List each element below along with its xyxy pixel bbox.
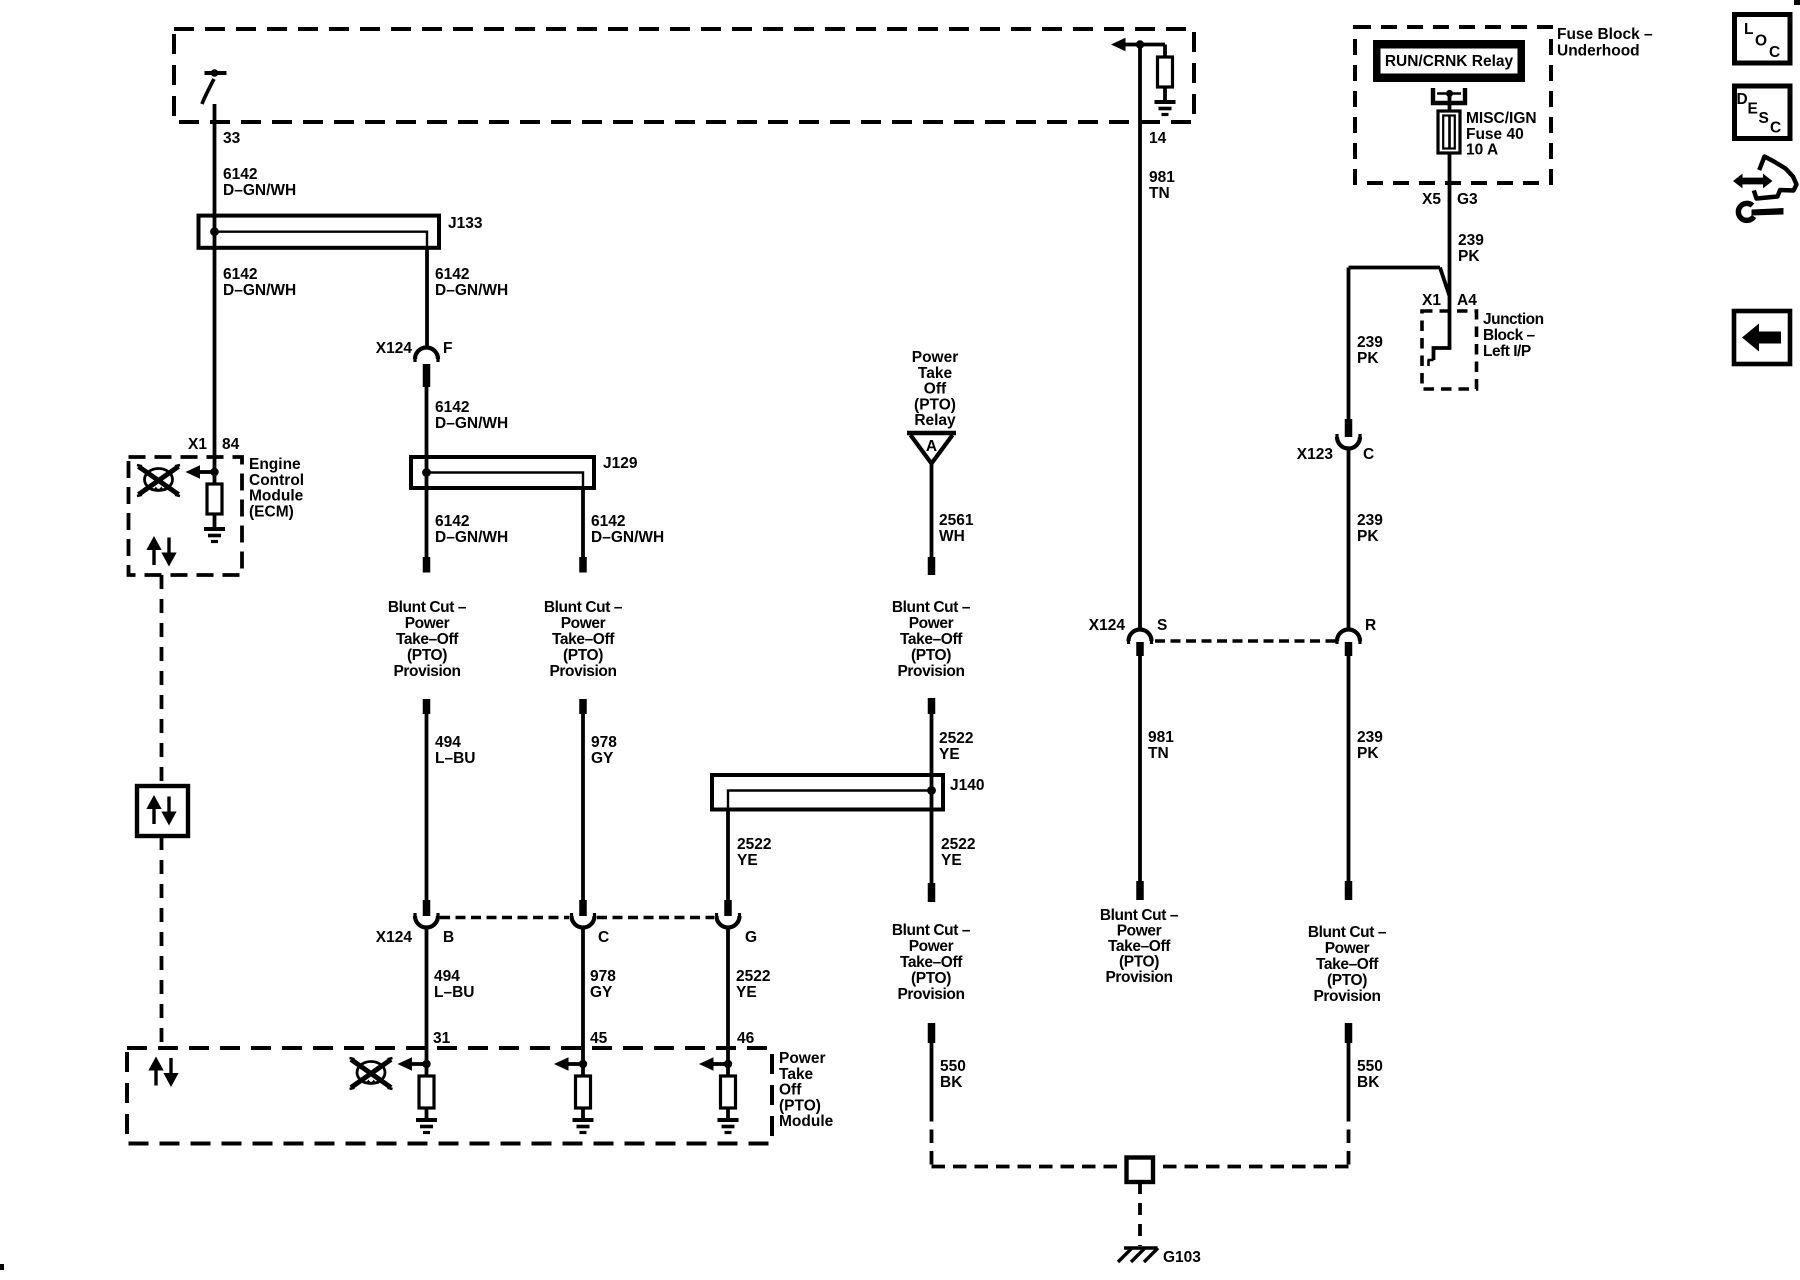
svg-text:PK: PK bbox=[1357, 745, 1379, 762]
svg-text:(PTO): (PTO) bbox=[407, 647, 447, 664]
blunt cut terminal (550 BK right) bbox=[1345, 1023, 1353, 1043]
svg-text:G103: G103 bbox=[1163, 1249, 1201, 1266]
svg-text:Take–Off: Take–Off bbox=[1108, 938, 1171, 955]
svg-text:Off: Off bbox=[779, 1082, 802, 1099]
svg-text:Blunt Cut –: Blunt Cut – bbox=[892, 922, 971, 939]
svg-text:(PTO): (PTO) bbox=[563, 647, 603, 664]
svg-text:494: 494 bbox=[434, 968, 460, 985]
crossed-out actuator symbol (bottom module) bbox=[350, 1058, 393, 1089]
svg-text:RUN/CRNK Relay: RUN/CRNK Relay bbox=[1385, 53, 1514, 70]
wire: 550 BK solid (right) bbox=[1347, 1043, 1351, 1108]
blunt cut terminal (right) bbox=[579, 557, 587, 573]
svg-text:(PTO): (PTO) bbox=[914, 396, 956, 413]
svg-text:S: S bbox=[1157, 617, 1167, 634]
svg-text:978: 978 bbox=[591, 734, 617, 751]
PTO module internal: arrow, resistor, ground at pin 46 bbox=[699, 1057, 739, 1132]
wire: 2522 YE through J140 bbox=[930, 714, 934, 884]
blunt cut terminal (left) bbox=[423, 557, 431, 573]
svg-text:YE: YE bbox=[939, 746, 960, 763]
svg-text:L: L bbox=[1744, 21, 1753, 38]
svg-text:E: E bbox=[1748, 101, 1758, 118]
svg-text:Provision: Provision bbox=[1105, 969, 1172, 986]
svg-text:2561: 2561 bbox=[939, 512, 974, 529]
Junction Block - Left I/P dashed box bbox=[1422, 311, 1477, 389]
svg-text:Power: Power bbox=[909, 938, 954, 955]
svg-text:D–GN/WH: D–GN/WH bbox=[435, 415, 508, 432]
svg-text:GY: GY bbox=[590, 984, 613, 1001]
svg-text:B: B bbox=[443, 929, 454, 946]
svg-text:Engine: Engine bbox=[249, 456, 301, 473]
svg-text:Left I/P: Left I/P bbox=[1483, 343, 1531, 360]
junction block internal link bbox=[1434, 311, 1450, 360]
svg-text:Power: Power bbox=[405, 615, 450, 632]
svg-text:C: C bbox=[1769, 44, 1780, 61]
svg-text:Module: Module bbox=[779, 1113, 834, 1130]
bidirectional arrows (ECM) bbox=[147, 537, 176, 566]
LOC icon box bbox=[1735, 15, 1791, 64]
wire: 2522 YE lower bbox=[726, 927, 730, 1064]
svg-text:A: A bbox=[926, 438, 937, 455]
blunt cut terminal end (239 PK) bbox=[1345, 881, 1353, 900]
wire: 550 BK solid (left) bbox=[930, 1043, 934, 1108]
relay output bracket bbox=[1433, 88, 1465, 111]
connector X124 pin R bbox=[1337, 630, 1360, 657]
svg-text:(PTO): (PTO) bbox=[911, 970, 951, 987]
svg-text:J129: J129 bbox=[603, 455, 638, 472]
svg-text:2522: 2522 bbox=[939, 730, 973, 747]
svg-text:239: 239 bbox=[1357, 512, 1383, 529]
svg-text:6142: 6142 bbox=[435, 399, 469, 416]
svg-text:(PTO): (PTO) bbox=[911, 647, 951, 664]
wire: 978 GY upper bbox=[581, 714, 585, 902]
svg-text:D–GN/WH: D–GN/WH bbox=[435, 282, 508, 299]
svg-text:Power: Power bbox=[912, 349, 959, 366]
svg-text:6142: 6142 bbox=[223, 266, 257, 283]
svg-text:L–BU: L–BU bbox=[435, 750, 475, 767]
svg-text:981: 981 bbox=[1149, 169, 1175, 186]
svg-text:Fuse Block –: Fuse Block – bbox=[1557, 26, 1653, 43]
svg-text:2522: 2522 bbox=[941, 836, 975, 853]
svg-text:45: 45 bbox=[590, 1030, 608, 1047]
wire: 494 L-BU upper bbox=[425, 714, 429, 902]
ECM internal arrow and node bbox=[186, 465, 219, 479]
svg-text:G: G bbox=[745, 929, 757, 946]
svg-text:Provision: Provision bbox=[897, 663, 964, 680]
svg-text:6142: 6142 bbox=[223, 166, 257, 183]
dashed link: ECM to arrow box bbox=[160, 575, 164, 786]
svg-text:A4: A4 bbox=[1457, 292, 1477, 309]
wire: J140 left 2522 YE to X124 G bbox=[726, 810, 730, 903]
dotted connector line C-G bbox=[597, 916, 714, 920]
svg-text:Power: Power bbox=[1325, 940, 1370, 957]
page artifact marks bbox=[0, 1264, 4, 1270]
svg-text:10 A: 10 A bbox=[1466, 142, 1498, 159]
svg-text:550: 550 bbox=[940, 1058, 966, 1075]
svg-text:6142: 6142 bbox=[591, 513, 625, 530]
DESC icon box bbox=[1735, 86, 1791, 139]
dashed connector line S-R bbox=[1155, 639, 1336, 643]
svg-text:J140: J140 bbox=[950, 777, 984, 794]
blunt cut terminal (550 BK left) bbox=[928, 1023, 936, 1043]
svg-text:Off: Off bbox=[924, 381, 947, 398]
svg-text:Take: Take bbox=[918, 365, 953, 382]
wire: J133 to X124 F, 6142 bbox=[425, 248, 429, 349]
svg-text:D–GN/WH: D–GN/WH bbox=[223, 182, 296, 199]
PTO Relay triangle symbol A bbox=[907, 433, 956, 464]
svg-text:Take–Off: Take–Off bbox=[396, 631, 459, 648]
DESC letters bbox=[1737, 91, 1782, 137]
svg-text:BK: BK bbox=[940, 1074, 963, 1091]
svg-text:Blunt Cut –: Blunt Cut – bbox=[892, 599, 971, 616]
svg-text:WH: WH bbox=[939, 528, 965, 545]
svg-text:PK: PK bbox=[1458, 248, 1480, 265]
svg-text:Provision: Provision bbox=[549, 663, 616, 680]
ECM internal ground bbox=[204, 529, 225, 542]
svg-text:6142: 6142 bbox=[435, 513, 469, 530]
svg-text:X1: X1 bbox=[188, 436, 207, 453]
blunt cut terminal start (col B) bbox=[423, 699, 431, 714]
switch inside PTO module bbox=[202, 69, 227, 104]
Power Take Off (PTO) Module dashed box (top) bbox=[174, 29, 1194, 122]
svg-text:2522: 2522 bbox=[736, 968, 770, 985]
svg-text:G3: G3 bbox=[1457, 191, 1478, 208]
svg-text:550: 550 bbox=[1357, 1058, 1383, 1075]
svg-text:Power: Power bbox=[909, 615, 954, 632]
svg-text:(PTO): (PTO) bbox=[779, 1097, 821, 1114]
svg-text:46: 46 bbox=[737, 1030, 755, 1047]
svg-text:F: F bbox=[443, 340, 452, 357]
connector X124 pin C bbox=[572, 900, 595, 928]
wire: 981 TN lower bbox=[1138, 656, 1142, 882]
connector X124 pin G bbox=[717, 900, 740, 928]
svg-text:C: C bbox=[598, 929, 609, 946]
svg-text:Take–Off: Take–Off bbox=[900, 954, 963, 971]
svg-text:PK: PK bbox=[1357, 528, 1379, 545]
ground junction square bbox=[1127, 1158, 1154, 1183]
wire: fuse to X5/G3 bbox=[1448, 153, 1452, 268]
svg-text:X123: X123 bbox=[1297, 446, 1334, 463]
back arrow icon box bbox=[1734, 311, 1790, 364]
PTO module internal (top right): arrow node resistor ground bbox=[1111, 38, 1176, 115]
svg-text:31: 31 bbox=[433, 1030, 451, 1047]
wire: 978 GY lower bbox=[581, 927, 585, 1064]
svg-text:(ECM): (ECM) bbox=[249, 503, 294, 520]
svg-text:(PTO): (PTO) bbox=[1119, 954, 1159, 971]
svg-text:C: C bbox=[1363, 446, 1374, 463]
svg-text:D–GN/WH: D–GN/WH bbox=[435, 529, 508, 546]
svg-text:Module: Module bbox=[249, 488, 304, 505]
svg-text:Take–Off: Take–Off bbox=[1316, 956, 1379, 973]
svg-text:Provision: Provision bbox=[897, 986, 964, 1003]
svg-text:TN: TN bbox=[1148, 745, 1169, 762]
bidirectional arrow box bbox=[137, 786, 188, 836]
svg-text:J133: J133 bbox=[448, 215, 483, 232]
svg-text:L–BU: L–BU bbox=[434, 984, 474, 1001]
Engine Control Module dashed box bbox=[129, 457, 243, 575]
PTO module internal: arrow, resistor, ground at pin 45 bbox=[554, 1057, 594, 1132]
svg-text:981: 981 bbox=[1148, 729, 1174, 746]
blunt cut terminal end (981 TN) bbox=[1136, 881, 1144, 900]
PTO module internal: arrow, resistor, ground at pin 31 bbox=[398, 1057, 438, 1132]
svg-text:X124: X124 bbox=[376, 340, 413, 357]
svg-text:MISC/IGN: MISC/IGN bbox=[1466, 110, 1537, 127]
svg-text:14: 14 bbox=[1149, 130, 1167, 147]
svg-text:978: 978 bbox=[590, 968, 616, 985]
svg-text:2522: 2522 bbox=[737, 836, 771, 853]
wire: relay A 2561 WH bbox=[930, 463, 934, 558]
svg-text:BK: BK bbox=[1357, 1074, 1380, 1091]
svg-text:YE: YE bbox=[737, 852, 758, 869]
svg-text:Blunt Cut –: Blunt Cut – bbox=[544, 599, 623, 616]
dashed ground run (left) bbox=[932, 1108, 1127, 1167]
wire: branch down to X123 C bbox=[1347, 268, 1351, 421]
svg-text:GY: GY bbox=[591, 750, 614, 767]
bidirectional arrows (box) bbox=[147, 796, 176, 825]
blunt cut terminal end (below J140) bbox=[928, 883, 936, 902]
svg-text:Power: Power bbox=[1117, 923, 1162, 940]
wire: 239 PK middle bbox=[1347, 448, 1351, 630]
ground G103 symbol bbox=[1118, 1248, 1158, 1262]
wire: pin 14, 981 TN upper bbox=[1138, 45, 1142, 631]
svg-text:Power: Power bbox=[561, 615, 606, 632]
svg-text:239: 239 bbox=[1357, 729, 1383, 746]
svg-text:PK: PK bbox=[1357, 350, 1379, 367]
svg-text:Relay: Relay bbox=[914, 412, 956, 429]
svg-text:Blunt Cut –: Blunt Cut – bbox=[1308, 924, 1387, 941]
svg-text:X124: X124 bbox=[376, 929, 413, 946]
svg-text:(PTO): (PTO) bbox=[1327, 972, 1367, 989]
dashed link: arrow box to PTO module bbox=[160, 836, 164, 1048]
wire: J129 right drop 6142 bbox=[581, 488, 585, 558]
svg-text:S: S bbox=[1759, 110, 1769, 127]
splice J140 bbox=[712, 775, 943, 810]
blunt cut terminal (relay wire) bbox=[928, 557, 936, 575]
svg-text:Take–Off: Take–Off bbox=[552, 631, 615, 648]
RUN/CRNK Relay block bbox=[1373, 40, 1525, 82]
svg-text:Fuse 40: Fuse 40 bbox=[1466, 126, 1524, 143]
svg-text:D–GN/WH: D–GN/WH bbox=[223, 282, 296, 299]
svg-text:84: 84 bbox=[222, 436, 240, 453]
splice J129 bbox=[411, 457, 594, 488]
splice J133 bbox=[199, 216, 440, 248]
svg-text:Provision: Provision bbox=[1313, 988, 1380, 1005]
svg-text:Control: Control bbox=[249, 472, 304, 489]
svg-text:Blunt Cut –: Blunt Cut – bbox=[1100, 907, 1179, 924]
Power Take Off (PTO) Module dashed box (bottom) bbox=[127, 1048, 772, 1144]
svg-text:Provision: Provision bbox=[393, 663, 460, 680]
svg-text:YE: YE bbox=[736, 984, 757, 1001]
wire: X124 F through J129, 6142 bbox=[425, 387, 429, 558]
LOC letters bbox=[1744, 21, 1780, 61]
svg-text:33: 33 bbox=[223, 130, 241, 147]
fuse MISC/IGN Fuse 40 symbol bbox=[1438, 111, 1460, 153]
dashed ground run (right) bbox=[1153, 1108, 1349, 1167]
wire: 494 L-BU lower bbox=[425, 927, 429, 1064]
blunt cut terminal start (col C) bbox=[579, 699, 587, 714]
svg-text:R: R bbox=[1365, 617, 1376, 634]
svg-text:Junction: Junction bbox=[1483, 311, 1544, 328]
svg-text:TN: TN bbox=[1149, 185, 1170, 202]
svg-text:494: 494 bbox=[435, 734, 461, 751]
svg-text:D–GN/WH: D–GN/WH bbox=[591, 529, 664, 546]
wire branch to junction block and left run bbox=[1349, 268, 1450, 312]
wire: 239 PK lower bbox=[1347, 656, 1351, 882]
svg-text:YE: YE bbox=[941, 852, 962, 869]
double arrow and wrench icon bbox=[1733, 157, 1797, 221]
svg-text:Block –: Block – bbox=[1483, 327, 1536, 344]
svg-text:Take: Take bbox=[779, 1066, 814, 1083]
svg-text:Take–Off: Take–Off bbox=[900, 631, 963, 648]
svg-text:O: O bbox=[1755, 33, 1767, 50]
Fuse Block - Underhood dashed box bbox=[1355, 27, 1551, 183]
wire: switch to J133 to ECM, circuit 6142 bbox=[213, 104, 217, 470]
ECM internal resistor bbox=[207, 472, 222, 527]
svg-text:Underhood: Underhood bbox=[1557, 43, 1640, 60]
svg-text:239: 239 bbox=[1357, 334, 1383, 351]
svg-text:D: D bbox=[1737, 91, 1748, 108]
svg-text:239: 239 bbox=[1458, 232, 1484, 249]
svg-text:Blunt Cut –: Blunt Cut – bbox=[388, 599, 467, 616]
svg-text:X5: X5 bbox=[1422, 191, 1441, 208]
dotted connector line B-C bbox=[440, 916, 569, 920]
blunt cut terminal start 2522 YE bbox=[928, 698, 936, 714]
back arrow bbox=[1742, 324, 1781, 352]
svg-text:Power: Power bbox=[779, 1050, 826, 1067]
crossed-out actuator symbol (ECM) bbox=[137, 465, 180, 496]
svg-text:X124: X124 bbox=[1089, 617, 1126, 634]
svg-text:6142: 6142 bbox=[435, 266, 469, 283]
dashed link to G103 bbox=[1138, 1182, 1142, 1246]
svg-text:X1: X1 bbox=[1422, 292, 1441, 309]
svg-text:C: C bbox=[1770, 120, 1781, 137]
bidirectional arrows (bottom module) bbox=[149, 1058, 178, 1087]
